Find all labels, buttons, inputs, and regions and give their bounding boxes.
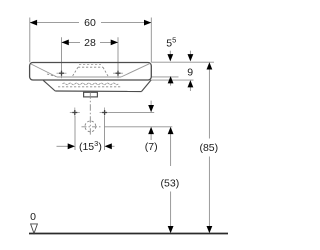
basin inner corner diagonal left <box>31 64 57 77</box>
dimension line 53 <box>170 132 172 166</box>
fixing hole reference line <box>110 111 155 113</box>
stem 5-5 down arrow <box>169 51 171 56</box>
drain centerline vertical <box>89 92 91 134</box>
svg-text:(7): (7) <box>145 141 158 153</box>
arrow 85 down <box>207 226 213 233</box>
svg-text:0: 0 <box>30 211 36 223</box>
arrow 60 left <box>30 20 37 26</box>
extension line 60 left <box>29 18 31 63</box>
stem 7 up arrow <box>150 132 152 140</box>
basin deck front edge <box>57 76 121 78</box>
dimension line 85 <box>208 68 210 139</box>
extension line 15-3 right <box>104 116 106 150</box>
faucet hole cross right <box>113 68 123 78</box>
dimension line 28 <box>62 41 81 43</box>
floor line <box>29 233 228 235</box>
arrow 53 down <box>168 226 174 233</box>
drain axis reference line <box>104 126 172 128</box>
arrow 9 up <box>188 80 194 87</box>
leader line 15-3 left <box>57 145 70 147</box>
hidden bowl top dashed line <box>78 66 103 68</box>
basin inner corner diagonal right <box>121 63 150 77</box>
svg-text:60: 60 <box>84 17 96 29</box>
svg-text:(53): (53) <box>161 177 180 189</box>
rim bottom reference line 9 <box>151 79 193 81</box>
hidden edge upper dashed line <box>79 64 101 66</box>
hidden shelf dashed left <box>47 74 56 77</box>
dimension line 60 <box>30 22 79 24</box>
arrow 53 up <box>168 127 174 134</box>
arrow 28 right <box>111 40 118 46</box>
extension line 15-3 left <box>74 116 76 150</box>
svg-text:(153): (153) <box>79 139 102 153</box>
arrow 28 left <box>62 40 69 46</box>
arrow 60 right <box>144 20 151 26</box>
bottom view fixing hole cross right <box>100 108 110 118</box>
washbasin front view <box>30 63 152 81</box>
extension line 28 right <box>117 37 119 77</box>
stem 9 down arrow <box>189 51 191 56</box>
wire <box>30 18 214 229</box>
svg-text:(85): (85) <box>199 142 218 154</box>
basin apron bottom <box>55 90 141 93</box>
arrow 9 down <box>188 54 194 61</box>
faucet hole cross left <box>57 68 67 78</box>
arrow 85 up <box>207 62 213 69</box>
stem 5-5 up arrow <box>170 81 172 86</box>
bottom view fixing hole cross left <box>70 108 80 118</box>
faucet deck reference line 5-5 <box>151 76 178 78</box>
arrow 15-3 left <box>68 143 75 149</box>
extension line 28 left <box>61 37 63 77</box>
leader line 15-3 right <box>111 145 115 147</box>
hidden bowl slant dashed left <box>72 67 78 77</box>
basin rim outline <box>30 63 152 81</box>
top surface reference line <box>151 61 214 63</box>
hidden bowl bottom dashed line <box>58 86 122 88</box>
svg-text:9: 9 <box>187 67 193 79</box>
svg-text:55: 55 <box>166 35 176 49</box>
arrow 7 up <box>148 127 154 134</box>
arrow 5-5 up <box>168 76 174 83</box>
drain centerline horizontal <box>82 126 101 128</box>
arrow 5-5 down <box>167 54 173 61</box>
hidden bowl rolled edge wavy line <box>63 83 119 85</box>
stem 7 down arrow <box>150 101 152 106</box>
hidden bowl slant dashed right <box>103 67 109 77</box>
basin apron right slant <box>142 80 152 92</box>
datum triangle <box>31 224 38 234</box>
stem 9 up arrow <box>189 85 191 91</box>
arrowheads <box>30 20 213 234</box>
drain trap rectangle <box>84 92 98 97</box>
arrow 15-3 right <box>105 143 112 149</box>
drain dashed circle <box>85 121 96 132</box>
svg-text:28: 28 <box>84 37 96 49</box>
basin apron left slant <box>43 80 55 91</box>
arrow 7 down <box>148 105 154 112</box>
extension line 60 right <box>150 18 152 63</box>
